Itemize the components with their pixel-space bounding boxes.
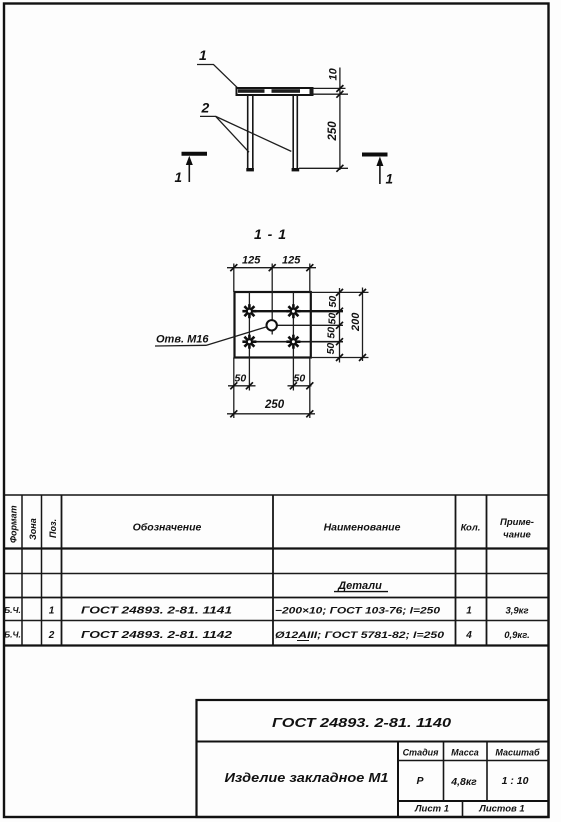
svg-text:50: 50 (326, 327, 338, 339)
dimension text 10 (328, 67, 340, 80)
dimension text 50 bottom-left (235, 373, 247, 385)
svg-text:125: 125 (282, 255, 301, 267)
svg-text:ГОСТ 24893. 2-81. 1140: ГОСТ 24893. 2-81. 1140 (272, 715, 452, 730)
item name: Izdelie zakladnoe M1 (225, 770, 389, 785)
svg-text:1: 1 (199, 47, 207, 63)
dimension line 50, bottom-right (288, 385, 312, 387)
svg-text:Обозначение: Обозначение (133, 522, 202, 534)
dimension text 200 (350, 312, 362, 332)
row 1: note 3,9kg (505, 606, 528, 617)
plate, section (top bar) (237, 88, 313, 95)
svg-text:Ø12АIII; ГОСТ 5781-82; l=250: Ø12АIII; ГОСТ 5781-82; l=250 (275, 630, 445, 641)
row 1: format B.Ch. (4, 605, 21, 615)
plate outline (plan view) (235, 292, 311, 358)
extension line, plate right edge down (309, 358, 311, 419)
svg-text:Зона: Зона (28, 518, 38, 540)
row 2: note 0,9kg (504, 630, 530, 641)
row 2: designation GOST 24893.2-81.1142 (81, 630, 232, 641)
dimension ticks on vertical dimension line (336, 85, 343, 172)
svg-text:чание: чание (503, 530, 531, 541)
centre line through hole, vertical (271, 264, 273, 335)
svg-text:4: 4 (465, 630, 472, 641)
group title Detali (underlined) (334, 580, 388, 592)
svg-text:Отв. М16: Отв. М16 (156, 334, 209, 346)
weld symbol, top-right anchor (286, 304, 300, 318)
extension line, plate top edge to right (311, 291, 369, 293)
svg-text:0,9кг.: 0,9кг. (504, 630, 530, 641)
svg-text:125: 125 (242, 255, 261, 267)
dimension line 50, bottom-left (228, 385, 256, 387)
dimension text 125 right (282, 255, 301, 267)
overall dimension line 250 (bottom) (227, 413, 315, 415)
row 2: qty 4 (465, 630, 472, 641)
svg-text:200: 200 (350, 312, 362, 332)
row 1: qty 1 (466, 606, 472, 617)
svg-text:−200×10; ГОСТ 103-76; l=250: −200×10; ГОСТ 103-76; l=250 (275, 606, 441, 617)
svg-text:3,9кг: 3,9кг (505, 606, 528, 617)
svg-text:ГОСТ 24893. 2-81. 1142: ГОСТ 24893. 2-81. 1142 (81, 630, 232, 641)
ticks on 250 line (230, 410, 313, 417)
column header Zona (rotated) (28, 518, 38, 540)
ticks on top dimension line (230, 264, 313, 271)
dimension text 125 left (242, 255, 261, 267)
svg-text:1: 1 (49, 606, 55, 617)
ticks on bottom 50 dims (230, 382, 313, 389)
svg-text:250: 250 (264, 399, 285, 411)
svg-text:2: 2 (201, 100, 210, 116)
anchor centre line, left column (248, 292, 250, 391)
row 2: format B.Ch. (4, 630, 21, 640)
svg-text:Формат: Формат (9, 505, 19, 543)
dimension text 250 (bottom) (264, 399, 285, 411)
row 2: pos 2 (48, 630, 55, 641)
value scale 1:10 (502, 775, 529, 787)
extension line, plate left edge down (233, 358, 235, 419)
svg-text:Масштаб: Масштаб (495, 748, 540, 758)
extension line, plate left edge up (233, 264, 235, 293)
sheets cell Listov 1 (478, 804, 524, 815)
leader lines from label 2 to both anchors (200, 116, 291, 152)
section title 1-1 (254, 226, 287, 242)
dimension text 50 (row 3) (326, 327, 338, 339)
row 1: designation GOST 24893.2-81.1141 (81, 606, 232, 617)
svg-text:Б.Ч.: Б.Ч. (4, 605, 21, 615)
table vertical rules (22, 495, 487, 646)
title block inner rules (197, 742, 549, 818)
svg-text:50: 50 (326, 313, 338, 325)
weld row line, top (thick) (249, 310, 343, 312)
column header Format (rotated) (9, 505, 19, 543)
position label 1 (plate) (199, 47, 207, 63)
weld row line, bottom (249, 341, 343, 343)
weld symbol, bottom-right anchor (286, 335, 300, 349)
header Stadiya (403, 748, 440, 758)
svg-text:1: 1 (466, 606, 472, 617)
column header Primechanie (2 lines) (500, 517, 534, 541)
hole label Otv.M16 with leader (155, 327, 267, 346)
weld symbol, top-left anchor (242, 304, 256, 318)
svg-text:Листов 1: Листов 1 (478, 804, 524, 815)
section cut mark 1, left (175, 154, 208, 185)
column header Oboznachenie (133, 522, 202, 534)
column header Naimenovanie (324, 522, 401, 534)
title block outline (197, 700, 549, 817)
value mass 4,8kg (450, 776, 477, 788)
vertical dimension line (10 and 250) (339, 68, 341, 171)
anchor rod, right (elevation) (292, 95, 300, 171)
svg-text:2: 2 (48, 630, 55, 641)
extension lines for dimension 10 (plate thickness) (313, 88, 348, 94)
ticks on 50-chain (336, 289, 343, 361)
dimension text 50 (row 1) (327, 296, 339, 308)
sheet cell List 1 (414, 804, 449, 815)
svg-text:1 - 1: 1 - 1 (254, 226, 287, 242)
svg-text:Р: Р (416, 775, 424, 787)
svg-text:ГОСТ 24893. 2-81. 1141: ГОСТ 24893. 2-81. 1141 (81, 606, 232, 617)
svg-text:250: 250 (327, 121, 339, 142)
extension line at anchor bottom (299, 167, 348, 169)
column header Poz (rotated) (48, 519, 58, 538)
row 1: name strip 200x10 (275, 606, 441, 617)
svg-text:Масса: Масса (451, 748, 479, 758)
leader line from label 1 to plate (197, 65, 238, 88)
svg-text:4,8кг: 4,8кг (450, 776, 477, 788)
dimension text 50 (row 4) (325, 343, 337, 355)
svg-text:Приме-: Приме- (500, 517, 534, 528)
dimension text 250 (elevation) (327, 121, 339, 142)
header Masshtab (495, 748, 540, 758)
svg-text:50: 50 (235, 373, 247, 385)
svg-text:10: 10 (328, 67, 340, 80)
row 2: name rod d12 AIII (275, 630, 445, 641)
dimension text 50 (row 2) (326, 313, 338, 325)
svg-text:50: 50 (327, 296, 339, 308)
svg-text:Б.Ч.: Б.Ч. (4, 630, 21, 640)
weld symbol, bottom-left anchor (242, 335, 256, 349)
svg-text:1: 1 (175, 170, 183, 185)
position label 2 (anchors) (201, 100, 210, 116)
svg-text:Поз.: Поз. (48, 519, 58, 538)
overall dimension line 200 (right) (362, 288, 364, 362)
extension line, plate bottom edge to right (311, 357, 369, 359)
anchor rod, left (elevation) (246, 95, 254, 171)
top dimension line 125+125 (227, 267, 316, 269)
table horizontal rules (4, 495, 549, 646)
svg-text:Наименование: Наименование (324, 522, 401, 534)
dimension text 50 bottom-right (294, 373, 306, 385)
svg-text:Детали: Детали (337, 580, 382, 592)
svg-text:Лист 1: Лист 1 (414, 804, 449, 815)
svg-text:50: 50 (325, 343, 337, 355)
hole M16 (circle) (267, 320, 277, 330)
svg-text:50: 50 (294, 373, 306, 385)
svg-text:Стадия: Стадия (403, 748, 440, 758)
header Massa (451, 748, 479, 758)
hole row line (277, 324, 344, 326)
svg-text:1: 1 (386, 172, 394, 187)
ticks on 200 line (359, 289, 366, 361)
svg-text:1 : 10: 1 : 10 (502, 775, 529, 787)
svg-text:Кол.: Кол. (461, 523, 481, 534)
document number GOST 24893.2-81.1140 (272, 715, 452, 730)
row 1: pos 1 (49, 606, 55, 617)
column header Kol (461, 523, 481, 534)
section cut mark 1, right (362, 155, 393, 187)
extension line, plate right edge up (309, 264, 311, 293)
svg-text:Изделие закладное М1: Изделие закладное М1 (225, 770, 389, 785)
anchor centre line, right column (292, 292, 294, 391)
value stage P (416, 775, 424, 787)
chain dimension line 50x4 (right) (339, 288, 341, 363)
